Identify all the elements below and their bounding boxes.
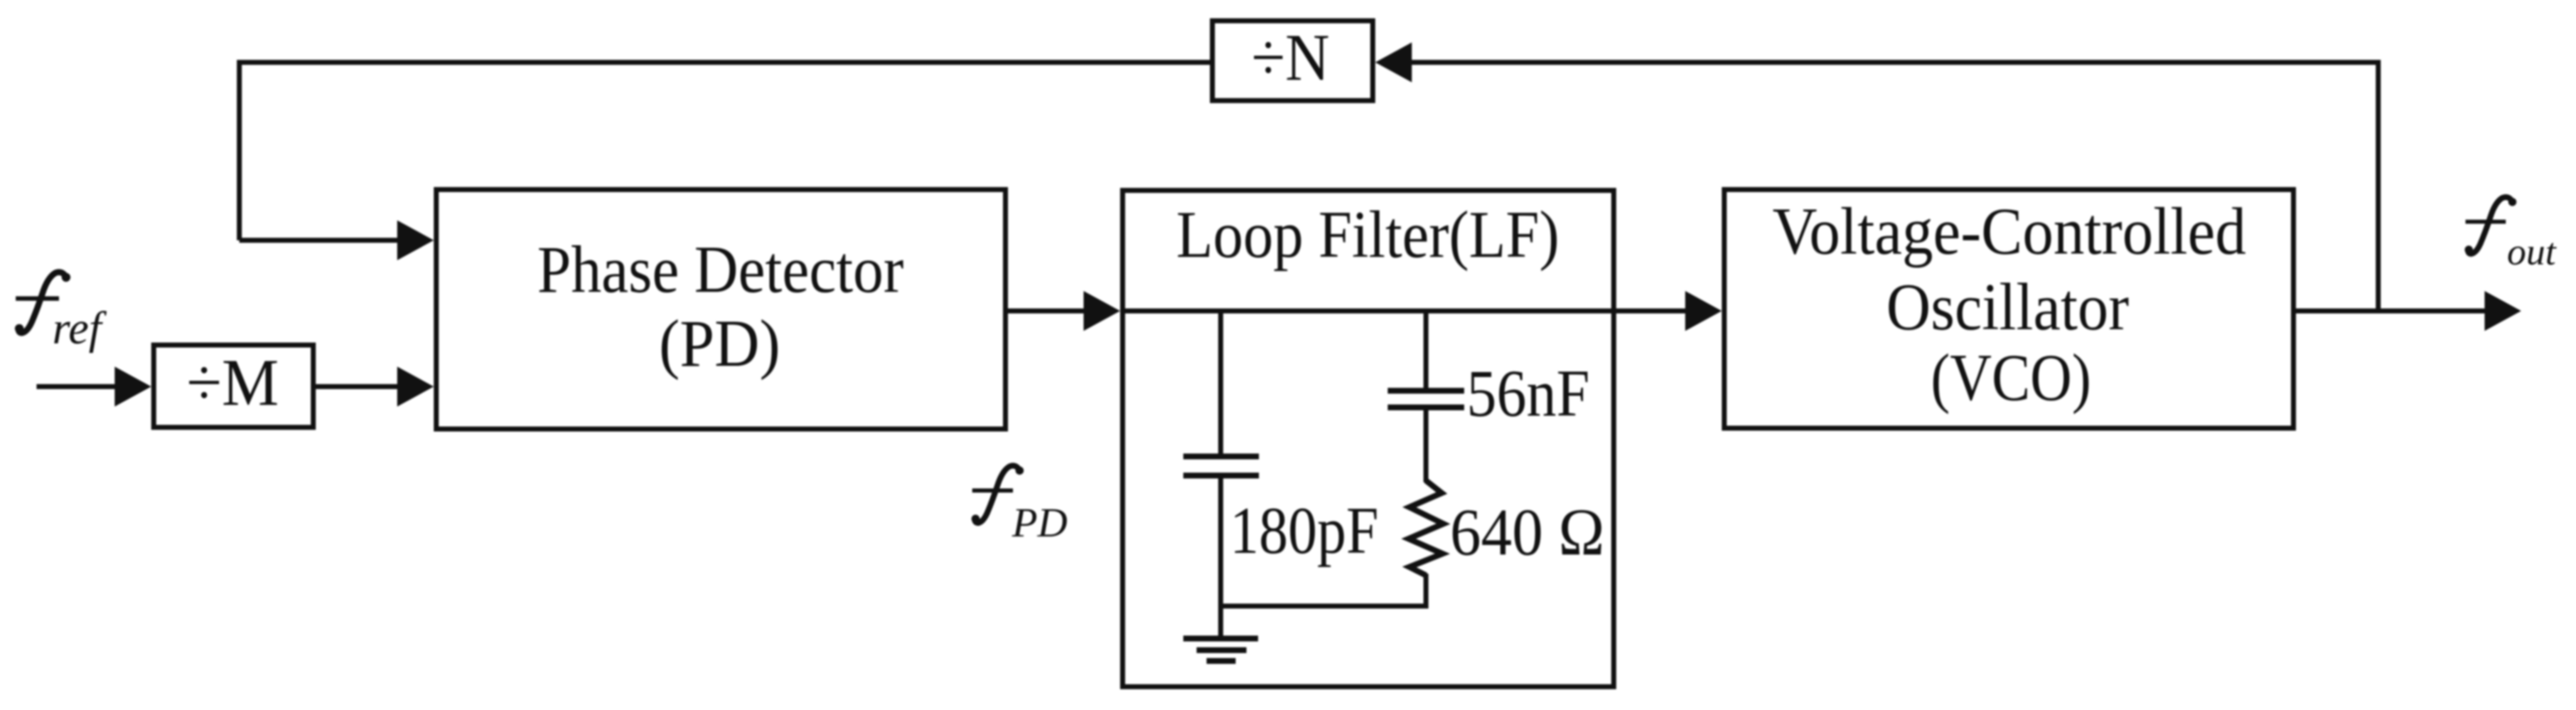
wire through LF [1123,308,1614,313]
block Phase Detector PD [436,190,1005,429]
svg-text:(PD): (PD) [659,306,780,381]
wire resistor to bottom [1423,574,1428,609]
wire right feedback vertical [2376,60,2381,311]
wire top feedback right segment [1412,60,2378,65]
wire bottom connecting C1 and R1 [1221,604,1426,609]
wire f_ref input [37,384,117,389]
svg-text:Loop Filter(LF): Loop Filter(LF) [1177,197,1560,272]
arrowhead into divider N [1375,42,1412,82]
capacitor C2 plate top [1388,388,1464,394]
block VCO [1724,190,2293,428]
capacitor C1 180pF branch wire upper [1218,311,1223,454]
arrowhead f_out [2485,291,2521,331]
node f_PD label [971,466,1068,545]
block Loop Filter LF [1123,190,1614,687]
capacitor C2 56nF branch wire upper [1423,311,1428,388]
svg-text:÷N: ÷N [1251,20,1330,95]
svg-text:(VCO): (VCO) [1931,340,2092,415]
svg-text:640 Ω: 640 Ω [1450,495,1605,569]
wire feedback into PD [239,238,402,243]
arrowhead into PD lower input [397,367,434,407]
node f_out label [2465,197,2557,273]
svg-text:ref: ref [52,303,107,353]
node f_out italic f glyph [2465,197,2516,254]
wire VCO output [2293,308,2487,313]
node f_PD italic f glyph [971,466,1024,523]
node f_ref italic f glyph [15,272,71,333]
capacitor C1 plate top [1183,454,1259,460]
svg-text:÷M: ÷M [187,345,279,420]
svg-text:Oscillator: Oscillator [1886,269,2129,344]
svg-text:180pF: 180pF [1230,493,1379,568]
wire divM to PD [316,384,402,389]
divider box M [154,345,313,427]
svg-text:PD: PD [1011,499,1068,545]
arrowhead into LF [1084,291,1120,331]
wire left feedback vertical [237,60,242,240]
svg-text:Phase Detector: Phase Detector [538,232,904,307]
resistor R1 zigzag [1408,481,1443,575]
ground bar 2 [1197,648,1246,653]
wire C2 to resistor [1423,410,1428,482]
divider box N [1212,21,1373,101]
capacitor C2 plate bottom [1388,405,1464,411]
capacitor C1 branch wire lower [1218,478,1223,636]
svg-text:56nF: 56nF [1467,356,1590,431]
arrowhead into divider M [115,367,151,407]
wire top feedback left segment [239,60,1210,65]
wire PD to LF [1005,308,1089,313]
wire LF to VCO [1614,308,1690,313]
arrowhead into VCO [1685,291,1722,331]
svg-text:out: out [2507,230,2557,273]
node f_ref label [15,272,107,353]
svg-text:Voltage-Controlled: Voltage-Controlled [1772,194,2246,269]
ground bar 3 [1207,658,1236,664]
arrowhead into PD upper input [397,220,434,260]
ground bar 1 [1183,636,1258,642]
capacitor C1 plate bottom [1183,473,1259,479]
